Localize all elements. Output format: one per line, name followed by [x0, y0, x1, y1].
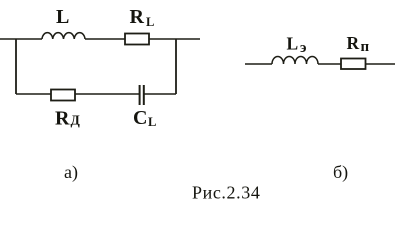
svg-text:Д: Д [71, 113, 81, 128]
svg-text:R: R [55, 108, 70, 130]
svg-text:б): б) [333, 162, 348, 183]
svg-text:C: C [133, 107, 147, 129]
svg-text:Рис.2.34: Рис.2.34 [192, 183, 260, 203]
svg-text:п: п [361, 39, 370, 55]
svg-text:L: L [287, 34, 299, 54]
svg-text:L: L [148, 115, 156, 129]
svg-text:R: R [130, 6, 145, 28]
svg-text:R: R [347, 33, 360, 53]
svg-text:L: L [56, 6, 69, 28]
svg-text:а): а) [64, 162, 78, 183]
svg-text:L: L [146, 15, 154, 29]
svg-text:э: э [300, 40, 306, 56]
